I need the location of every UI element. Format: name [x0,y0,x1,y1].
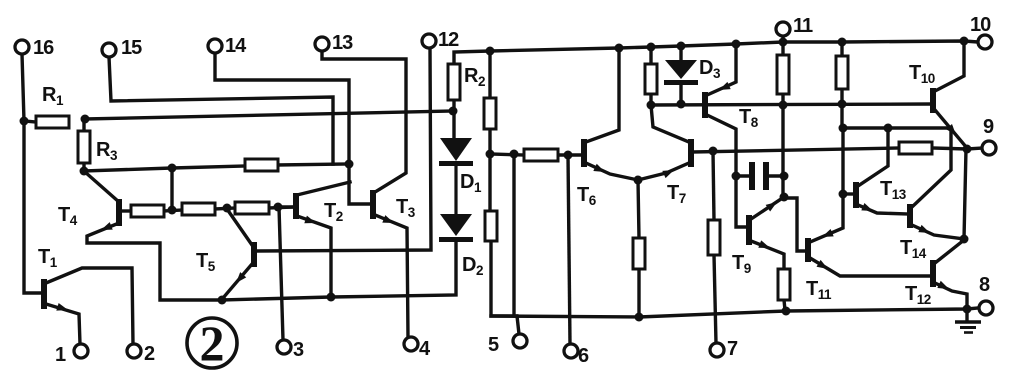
svg-text:6: 6 [578,345,589,367]
svg-text:3: 3 [293,339,304,361]
svg-text:9: 9 [983,116,994,138]
svg-text:13: 13 [332,32,353,54]
svg-text:10: 10 [970,14,991,36]
svg-text:2: 2 [200,315,225,371]
svg-text:14: 14 [225,35,247,57]
svg-text:5: 5 [488,334,499,356]
svg-text:2: 2 [144,343,155,365]
svg-text:11: 11 [793,15,813,37]
svg-text:16: 16 [33,37,54,59]
svg-text:7: 7 [727,338,738,360]
svg-text:15: 15 [121,37,142,59]
svg-text:12: 12 [438,29,459,51]
svg-text:8: 8 [979,274,990,296]
svg-text:1: 1 [55,344,66,366]
